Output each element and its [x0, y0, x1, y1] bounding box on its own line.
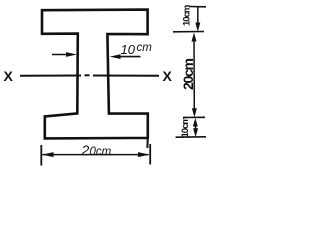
dimension line [43, 154, 149, 156]
right extension tick [149, 144, 151, 165]
label 10cm (web width) [121, 42, 153, 57]
bottom dimension 20cm [41, 144, 150, 166]
centroidal axis dash [85, 74, 90, 76]
I-section outline [42, 10, 148, 139]
left extension tick [40, 145, 42, 166]
svg-text:X: X [163, 68, 173, 84]
svg-text:2: 2 [81, 142, 90, 158]
tick bottom [176, 136, 206, 138]
svg-text:X: X [4, 68, 14, 84]
tick top [189, 6, 206, 8]
svg-text:20cm: 20cm [180, 59, 196, 90]
arrowhead down [195, 23, 200, 32]
bottom flange right edge overshoot [146, 137, 148, 149]
right arrowhead [138, 152, 149, 157]
svg-text:10cm: 10cm [180, 117, 191, 138]
arrowhead up [192, 33, 197, 42]
label 20cm (bottom) [81, 142, 112, 158]
arrowhead up [193, 118, 198, 127]
web width leader left [52, 52, 77, 57]
svg-text:10: 10 [121, 42, 136, 57]
left arrowhead [42, 152, 53, 157]
right dimension chain: bottom flange 10cm [176, 118, 206, 137]
svg-text:0cm: 0cm [90, 146, 112, 158]
centroidal axis X-X left segment [20, 75, 81, 77]
arrowhead down [193, 128, 198, 137]
arrowhead down [192, 108, 197, 117]
tick at flange bottom [173, 31, 204, 33]
tick at bottom flange top [183, 116, 205, 118]
right dimension chain: top flange 10cm [173, 7, 206, 32]
svg-text:cm: cm [137, 42, 153, 54]
centroidal axis right segment [93, 75, 159, 77]
web width leader right [110, 54, 141, 59]
svg-text:10cm: 10cm [182, 5, 193, 26]
right dimension chain: web 20cm [183, 33, 205, 118]
